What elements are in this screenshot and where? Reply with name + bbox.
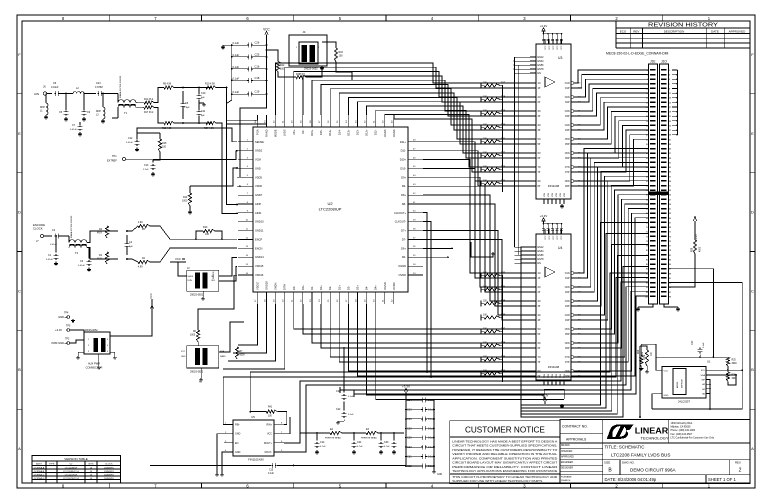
- svg-text:D0+: D0+: [301, 285, 305, 290]
- svg-text:O5N: O5N: [565, 329, 570, 331]
- svg-text:OGND: OGND: [392, 129, 396, 137]
- VCC arrow top: [263, 28, 270, 39]
- svg-text:DC996A-B: DC996A-B: [34, 470, 45, 473]
- svg-text:DOUT-: DOUT-: [265, 451, 273, 454]
- svg-text:TECHNOLOGY: TECHNOLOGY: [641, 436, 669, 441]
- svg-text:D7+: D7+: [401, 229, 406, 233]
- svg-text:GND: GND: [255, 166, 261, 170]
- svg-text:C33: C33: [407, 446, 412, 449]
- svg-text:C22: C22: [336, 408, 341, 411]
- svg-text:100: 100: [205, 233, 210, 236]
- svg-text:APPLICATION. COMPONENT SUBSTIT: APPLICATION. COMPONENT SUBSTITUTION AND …: [452, 456, 557, 460]
- svg-text:EEPROM: EEPROM: [682, 379, 684, 388]
- svg-text:REV.: REV.: [735, 461, 741, 465]
- inductor L1 DNP: [40, 94, 48, 120]
- svg-text:VERIFY PROPER AND RELIABLE OPE: VERIFY PROPER AND RELIABLE OPERATION IN …: [452, 452, 558, 456]
- svg-text:6P: 6P: [538, 158, 541, 160]
- svg-text:ENCP: ENCP: [255, 238, 262, 242]
- svg-text:DC996A-A: DC996A-A: [34, 467, 45, 470]
- svg-text:C12: C12: [128, 137, 133, 140]
- wire bus connector odd-pin commoning: [672, 69, 678, 135]
- svg-text:DATE: 8/24/2006 04:01:49p: DATE: 8/24/2006 04:01:49p: [605, 477, 657, 482]
- svg-text:0.1uF: 0.1uF: [233, 41, 240, 45]
- svg-text:DATE: DATE: [711, 29, 719, 33]
- svg-text:DITH: DITH: [283, 284, 287, 290]
- svg-text:VCC: VCC: [263, 28, 270, 32]
- edge connector J10: [636, 64, 680, 311]
- svg-text:D4+: D4+: [374, 285, 378, 290]
- svg-text:GND11: GND11: [255, 229, 264, 233]
- svg-text:VDD6: VDD6: [255, 184, 262, 188]
- svg-text:6N: 6N: [538, 153, 541, 155]
- svg-text:O5P: O5P: [565, 334, 570, 336]
- +3.3V supply above U4: [540, 214, 563, 234]
- svg-text:D11-: D11-: [401, 149, 407, 153]
- svg-text:1.8pF: 1.8pF: [184, 107, 190, 109]
- svg-text:O7P: O7P: [565, 362, 570, 364]
- svg-text:SHDN: SHDN: [188, 276, 194, 278]
- svg-text:DNP: DNP: [96, 111, 101, 113]
- svg-text:4990: 4990: [732, 363, 738, 365]
- svg-text:C11: C11: [201, 110, 206, 113]
- svg-text:D: D: [18, 210, 21, 215]
- wire bus connector to clock circuits: [284, 282, 649, 452]
- svg-text:VDD15: VDD15: [255, 264, 264, 268]
- wires AINP AINN to U2: [216, 87, 237, 214]
- svg-text:2902S-0652: 2902S-0652: [190, 371, 204, 374]
- wire bus enable signals to connector: [521, 222, 649, 417]
- svg-text:GND2: GND2: [255, 149, 263, 153]
- svg-text:996ASCH: 996ASCH: [561, 479, 571, 482]
- svg-text:0.01uF: 0.01uF: [70, 129, 77, 131]
- AUX PWR connector: [70, 312, 152, 370]
- wires to jumpers: [170, 258, 244, 353]
- svg-text:140MSPS: 140MSPS: [104, 475, 114, 477]
- jumper J2 SHDN 2902S-0652: [187, 267, 219, 301]
- capacitor C2: [50, 229, 66, 246]
- svg-text:EN78: EN78: [538, 258, 545, 261]
- svg-text:8pF: 8pF: [129, 246, 133, 248]
- svg-text:SUPPLIED FOR USE WITH LINEAR T: SUPPLIED FOR USE WITH LINEAR TECHNOLOGY …: [452, 479, 542, 483]
- bypass capacitors C26 C25 C16 C18 C19: [221, 38, 267, 205]
- svg-text:FIN1101K8X: FIN1101K8X: [248, 458, 264, 462]
- svg-text:0.01uF: 0.01uF: [51, 86, 59, 89]
- svg-text:2: 2: [739, 468, 742, 474]
- svg-text:+3.3V: +3.3V: [55, 328, 62, 332]
- svg-text:4990: 4990: [732, 378, 738, 380]
- connector J6 AIN: [34, 85, 52, 97]
- svg-text:OVDD: OVDD: [392, 282, 396, 290]
- svg-text:C34: C34: [407, 399, 412, 402]
- svg-text:8pF: 8pF: [201, 97, 205, 99]
- svg-text:O7N: O7N: [565, 167, 570, 169]
- capacitors C10 C11: [197, 87, 206, 124]
- wire bus connector to EEPROM U1: [669, 269, 744, 371]
- svg-text:0.01uF: 0.01uF: [46, 259, 53, 261]
- svg-text:100: 100: [162, 146, 167, 149]
- svg-text:1000: 1000: [182, 200, 188, 203]
- svg-text:4.99: 4.99: [138, 267, 143, 269]
- svg-text:R28: R28: [692, 247, 694, 252]
- svg-text:MEC8-150-02-L-D-EDGE_CONNAR-DI: MEC8-150-02-L-D-EDGE_CONNAR-DIM: [606, 52, 669, 56]
- svg-text:1P: 1P: [538, 278, 541, 280]
- svg-text:VCC: VCC: [549, 45, 551, 50]
- svg-text:E: E: [751, 131, 754, 136]
- bottom ground rail: [150, 465, 406, 467]
- svg-text:100k: 100k: [644, 354, 646, 360]
- svg-text:LTC2208IUP-14: LTC2208IUP-14: [63, 471, 79, 473]
- svg-text:DOUT+: DOUT+: [264, 442, 273, 445]
- svg-text:C30: C30: [384, 441, 389, 444]
- svg-text:VCC: VCC: [149, 293, 153, 299]
- svg-text:VCC: VCC: [549, 235, 551, 240]
- svg-text:VCC: VCC: [557, 45, 559, 50]
- svg-text:DEMO CIRCUIT 996A: DEMO CIRCUIT 996A: [630, 468, 677, 473]
- svg-text:D1+: D1+: [319, 285, 323, 290]
- svg-text:C16: C16: [255, 64, 260, 68]
- svg-text:SHEET 1 OF 1: SHEET 1 OF 1: [708, 477, 737, 482]
- svg-text:7P: 7P: [538, 362, 541, 364]
- title text: [603, 444, 750, 459]
- svg-text:GND: GND: [235, 433, 241, 436]
- revision history table: [616, 21, 750, 48]
- svg-text:A: A: [751, 446, 754, 451]
- svg-text:TP4: TP4: [64, 312, 69, 315]
- svg-text:VCC: VCC: [553, 235, 555, 240]
- svg-text:2N: 2N: [538, 287, 541, 289]
- svg-text:0.1uF: 0.1uF: [233, 65, 240, 69]
- svg-text:EXTREF: EXTREF: [107, 160, 117, 163]
- svg-text:CLOCK: CLOCK: [105, 464, 113, 466]
- svg-text:VCC: VCC: [561, 45, 563, 50]
- svg-text:VCC: VCC: [561, 235, 563, 240]
- svg-text:8P: 8P: [538, 186, 541, 188]
- svg-text:CIRCUIT BOARD LAYOUT MAY SIGNI: CIRCUIT BOARD LAYOUT MAY SIGNIFICANTLY A…: [452, 461, 558, 465]
- svg-text:D15-: D15-: [319, 129, 323, 135]
- svg-text:VCC: VCC: [267, 433, 272, 436]
- svg-text:Fax: (408) 434-0507: Fax: (408) 434-0507: [671, 433, 693, 436]
- test points TP4 TP5 TP2: [51, 312, 74, 346]
- resistor R6: [190, 330, 200, 346]
- svg-text:VCC: VCC: [545, 235, 547, 240]
- svg-text:O2P: O2P: [565, 102, 570, 104]
- svg-text:VSS: VSS: [556, 192, 558, 197]
- capacitor C12: [126, 133, 148, 152]
- svg-text:SIZE: SIZE: [604, 461, 610, 465]
- svg-text:O7N: O7N: [565, 357, 570, 359]
- svg-text:O4N: O4N: [565, 315, 570, 317]
- svg-text:THIS CIRCUIT IS PROPRIETARY TO: THIS CIRCUIT IS PROPRIETARY TO LINEAR TE…: [452, 475, 557, 479]
- size dwg rev cells: [603, 460, 750, 475]
- svg-text:D8+: D8+: [401, 193, 406, 197]
- svg-text:LTC2208 FAMILY LVDS BUS: LTC2208 FAMILY LVDS BUS: [611, 452, 670, 457]
- svg-text:+3.3V: +3.3V: [540, 24, 548, 28]
- version table: [32, 456, 121, 484]
- VCC rail mid-left: [149, 293, 154, 312]
- svg-text:+3.3V: +3.3V: [402, 385, 410, 389]
- jumper J3 PGA RAND 2902S-0652: [181, 346, 226, 384]
- svg-text:PWR GND: PWR GND: [51, 341, 64, 345]
- svg-text:O6P: O6P: [565, 158, 570, 160]
- svg-text:1000: 1000: [190, 335, 196, 337]
- svg-text:O5N: O5N: [565, 139, 570, 141]
- svg-text:APPROVALS: APPROVALS: [566, 438, 587, 442]
- svg-text:1000: 1000: [240, 355, 246, 357]
- svg-text:7P: 7P: [538, 172, 541, 174]
- wires at U1: [641, 344, 742, 410]
- capacitor C23: [95, 82, 112, 96]
- svg-text:GND14: GND14: [255, 255, 264, 259]
- svg-text:D12+: D12+: [365, 129, 369, 136]
- customer notice box: [450, 421, 560, 484]
- svg-text:DESCRIPTION: DESCRIPTION: [664, 29, 685, 33]
- svg-text:D7-: D7-: [402, 238, 406, 242]
- ground below U3: [560, 204, 564, 208]
- svg-text:O4N: O4N: [565, 125, 570, 127]
- svg-text:C28: C28: [407, 427, 412, 430]
- svg-text:2902S-0652: 2902S-0652: [190, 294, 204, 297]
- svg-text:ENGINEER: ENGINEER: [561, 462, 573, 464]
- svg-text:C23: C23: [96, 82, 101, 85]
- svg-text:RUN: RUN: [188, 280, 193, 282]
- svg-text:0.01uF: 0.01uF: [78, 265, 85, 267]
- connector J7 ENCODE CLOCK: [33, 223, 52, 243]
- svg-text:0.01uF: 0.01uF: [50, 244, 57, 246]
- resistor R12: [266, 49, 285, 72]
- svg-text:LTC2207IUP: LTC2207IUP: [65, 475, 78, 477]
- svg-text:D10-: D10-: [400, 166, 406, 170]
- resistor R15: [148, 133, 167, 160]
- svg-text:C18: C18: [255, 76, 260, 80]
- svg-text:C24: C24: [357, 441, 362, 444]
- svg-text:J1O: J1O: [661, 60, 667, 64]
- svg-text:SENSE: SENSE: [255, 140, 264, 144]
- svg-text:130MSPS: 130MSPS: [104, 471, 114, 473]
- svg-text:O8N: O8N: [565, 181, 570, 183]
- svg-text:FIN1108: FIN1108: [548, 184, 560, 188]
- connector part number label: [606, 52, 669, 64]
- svg-text:FERRITE BEAD: FERRITE BEAD: [325, 437, 341, 440]
- jumper J4 2902S-0652: [289, 30, 327, 71]
- svg-text:0.1uF: 0.1uF: [268, 473, 274, 475]
- svg-text:D3+: D3+: [356, 285, 360, 290]
- svg-text:GND: GND: [235, 451, 241, 454]
- svg-text:24LC025T: 24LC025T: [678, 400, 691, 404]
- svg-text:ASSY: ASSY: [36, 463, 42, 466]
- svg-text:WP: WP: [701, 380, 705, 382]
- svg-text:O2N: O2N: [565, 97, 570, 99]
- ground at J4: [320, 66, 324, 70]
- svg-text:U3: U3: [558, 56, 562, 60]
- resistor R7: [235, 347, 245, 359]
- svg-text:0.1uF: 0.1uF: [348, 396, 354, 398]
- svg-text:D2-: D2-: [328, 286, 332, 290]
- svg-text:0.1uF: 0.1uF: [233, 90, 240, 94]
- svg-text:D3-: D3-: [346, 286, 350, 290]
- svg-text:4.7uF: 4.7uF: [384, 446, 390, 448]
- svg-text:O6N: O6N: [565, 343, 570, 345]
- svg-text:3N: 3N: [538, 111, 541, 113]
- svg-text:CHECKED: CHECKED: [561, 451, 573, 453]
- svg-text:VSS: VSS: [544, 192, 546, 197]
- svg-text:C29: C29: [407, 437, 412, 440]
- svg-text:2902S-0652: 2902S-0652: [304, 68, 318, 71]
- svg-text:OF+: OF+: [292, 129, 296, 135]
- wire bus U3 outputs to connector: [577, 70, 649, 186]
- svg-text:0.1uF: 0.1uF: [348, 414, 354, 416]
- resistor R13: [195, 226, 223, 240]
- svg-text:O3N: O3N: [565, 301, 570, 303]
- svg-text:+3.3V: +3.3V: [694, 234, 698, 241]
- svg-text:R41: R41: [268, 407, 273, 409]
- svg-text:EN: EN: [538, 262, 542, 265]
- svg-text:D9+: D9+: [401, 175, 406, 179]
- capacitor C7: [70, 122, 82, 136]
- svg-text:C13: C13: [144, 164, 149, 167]
- svg-text:REVISION HISTORY: REVISION HISTORY: [648, 23, 719, 29]
- svg-text:5N: 5N: [538, 139, 541, 141]
- +3.3V supply above U3: [540, 24, 563, 44]
- svg-text:CLKOUT-: CLKOUT-: [395, 220, 406, 224]
- svg-text:VCC: VCC: [175, 257, 181, 261]
- svg-text:0.1uF: 0.1uF: [233, 53, 240, 57]
- capacitors C14 C24 C30: [315, 432, 397, 454]
- svg-text:RIN+: RIN+: [266, 423, 272, 426]
- svg-text:DESIGNER: DESIGNER: [561, 468, 573, 470]
- svg-text:4990: 4990: [700, 246, 702, 252]
- svg-text:TYPE: TYPE: [49, 464, 55, 466]
- svg-text:LTC2207IUP-14: LTC2207IUP-14: [63, 478, 79, 480]
- svg-text:O7P: O7P: [565, 172, 570, 174]
- wires at J4: [278, 42, 352, 80]
- svg-text:OGND: OGND: [398, 264, 406, 268]
- svg-text:O2N: O2N: [565, 287, 570, 289]
- title block frame: [560, 420, 750, 484]
- svg-text:4N: 4N: [538, 125, 541, 127]
- svg-text:D: D: [751, 210, 754, 215]
- svg-text:4.7uF: 4.7uF: [320, 446, 326, 448]
- svg-text:C27: C27: [691, 340, 694, 345]
- svg-text:D8-: D8-: [402, 202, 406, 206]
- capacitor C27: [691, 340, 705, 358]
- svg-text:Milpitas, CA 95035: Milpitas, CA 95035: [671, 426, 692, 429]
- svg-text:EN78: EN78: [538, 68, 545, 71]
- svg-text:HOWEVER, IT REMAINS THE CUSTOM: HOWEVER, IT REMAINS THE CUSTOMERS RESPON…: [452, 448, 557, 452]
- svg-text:R24: R24: [638, 349, 640, 354]
- svg-text:REV: REV: [633, 29, 639, 33]
- svg-text:U1: U1: [707, 360, 711, 364]
- svg-text:ENCN: ENCN: [255, 246, 262, 250]
- svg-text:EN12: EN12: [538, 56, 545, 59]
- svg-text:8pF: 8pF: [201, 115, 205, 117]
- svg-text:PGA: PGA: [220, 350, 225, 353]
- svg-text:C20: C20: [336, 390, 341, 393]
- svg-text:D6-: D6-: [402, 255, 406, 259]
- svg-text:D15+: D15+: [310, 129, 314, 136]
- resistors R5 R4: [127, 222, 237, 269]
- svg-text:DITHER: DITHER: [213, 271, 215, 279]
- resistor R3 DNP: [296, 73, 306, 79]
- svg-text:D12-: D12-: [374, 129, 378, 135]
- svg-text:8N: 8N: [538, 181, 541, 183]
- wire CLKOUT pair to U5 and connector: [223, 213, 648, 425]
- svg-text:1N: 1N: [538, 83, 541, 85]
- svg-text:C31: C31: [407, 456, 412, 459]
- svg-text:VCC: VCC: [557, 235, 559, 240]
- svg-text:DC996A-C: DC996A-C: [34, 474, 45, 477]
- svg-text:O8P: O8P: [565, 186, 570, 188]
- capacitor C1: [46, 235, 58, 266]
- EEPROM U1 24LC025T: [662, 360, 711, 404]
- test point TP1 EXTREF: [107, 155, 161, 163]
- svg-text:VCM: VCM: [255, 158, 261, 162]
- svg-text:5N: 5N: [538, 329, 541, 331]
- svg-text:CIRCUIT THAT MEETS CUSTOMER-SU: CIRCUIT THAT MEETS CUSTOMER-SUPPLIED SPE…: [452, 444, 557, 448]
- wire bus U2 right pins to U4 inputs: [423, 160, 530, 320]
- svg-text:VDD17: VDD17: [255, 281, 259, 290]
- svg-text:C26: C26: [255, 41, 260, 45]
- svg-text:CUSTOMER NOTICE: CUSTOMER NOTICE: [465, 426, 545, 435]
- svg-text:VCC: VCC: [181, 351, 186, 353]
- svg-text:CLKOUT+: CLKOUT+: [394, 211, 407, 215]
- svg-text:O6P: O6P: [565, 348, 570, 350]
- capacitor C3: [78, 247, 91, 271]
- svg-text:D13-: D13-: [356, 129, 360, 135]
- svg-text:SHDN: SHDN: [274, 283, 278, 290]
- svg-text:O1N: O1N: [565, 273, 570, 275]
- +3.3V below U4: [542, 389, 565, 408]
- svg-text:130MSPS: 130MSPS: [104, 468, 114, 470]
- svg-text:5P: 5P: [538, 334, 541, 336]
- enable bus U3 to U4: [514, 57, 530, 263]
- svg-text:7N: 7N: [538, 357, 541, 359]
- svg-text:2P: 2P: [538, 292, 541, 294]
- resistor R41: [266, 407, 277, 418]
- svg-text:D13+: D13+: [346, 129, 350, 136]
- svg-text:0.1uF: 0.1uF: [233, 76, 240, 80]
- wire bus U2 right pins to U3 lower inputs: [423, 142, 530, 186]
- svg-text:EN56: EN56: [538, 254, 545, 257]
- svg-text:R25: R25: [732, 360, 737, 362]
- resistors R10 R27: [204, 83, 216, 131]
- LVDS buffer U3 FIN1108: [530, 39, 581, 204]
- ferrite beads E2 E3: [300, 428, 404, 440]
- wires sense VCM to U2: [137, 128, 238, 214]
- svg-text:EN34: EN34: [538, 60, 545, 63]
- wire bus U2 data outputs to U3 inputs: [227, 63, 530, 172]
- svg-text:1630 McCarthy Blvd.: 1630 McCarthy Blvd.: [671, 422, 694, 425]
- svg-text:J4: J4: [303, 30, 306, 34]
- resistors R2 R1: [87, 226, 118, 264]
- logo text: [635, 426, 669, 440]
- svg-text:C35: C35: [407, 408, 412, 411]
- svg-text:0.01uF: 0.01uF: [126, 142, 133, 144]
- svg-text:2902S-0652: 2902S-0652: [85, 330, 98, 332]
- svg-text:VSS: VSS: [548, 192, 550, 197]
- svg-text:CONTRACT NO.: CONTRACT NO.: [562, 425, 588, 429]
- svg-text:AUX PWR: AUX PWR: [88, 362, 100, 366]
- svg-text:3P: 3P: [538, 306, 541, 308]
- svg-text:B: B: [751, 367, 754, 372]
- svg-text:4N: 4N: [538, 315, 541, 317]
- svg-text:2.2uF: 2.2uF: [143, 169, 149, 171]
- svg-text:1P: 1P: [538, 88, 541, 90]
- svg-text:GND10: GND10: [255, 220, 264, 224]
- transformer T2: [66, 215, 87, 255]
- svg-text:C19: C19: [255, 90, 260, 94]
- svg-text:VCC: VCC: [553, 45, 555, 50]
- date sheet cells: [605, 475, 737, 484]
